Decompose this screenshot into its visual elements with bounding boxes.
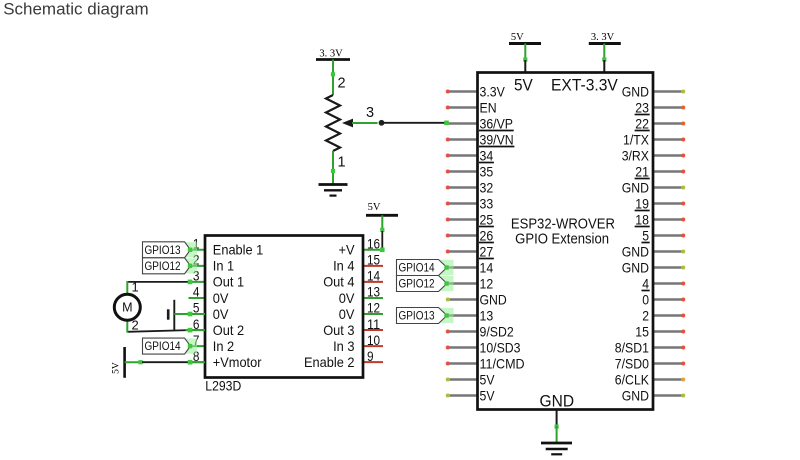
svg-text:5: 5 [642,227,649,243]
svg-text:In 1: In 1 [213,258,235,274]
svg-text:5V: 5V [112,362,122,374]
svg-text:25: 25 [480,211,494,227]
svg-text:18: 18 [635,211,649,227]
svg-text:10/SD3: 10/SD3 [480,339,521,355]
svg-text:14: 14 [480,259,494,275]
svg-text:M: M [122,301,132,315]
svg-text:9: 9 [367,349,374,364]
svg-text:4: 4 [193,285,200,300]
svg-text:GND: GND [622,179,649,195]
svg-text:GND: GND [622,259,649,275]
svg-text:27: 27 [480,243,494,259]
svg-text:8/SD1: 8/SD1 [615,339,649,355]
svg-text:33: 33 [480,195,494,211]
svg-text:In 3: In 3 [333,338,355,354]
svg-text:GPIO12: GPIO12 [399,277,435,291]
svg-text:7/SD0: 7/SD0 [615,355,649,371]
svg-text:Schematic diagram: Schematic diagram [3,0,149,19]
svg-text:GPIO13: GPIO13 [399,309,435,323]
svg-text:GPIO14: GPIO14 [145,339,181,353]
svg-text:36/VP: 36/VP [480,115,514,131]
svg-text:5V: 5V [514,76,533,94]
svg-text:5V: 5V [480,371,496,387]
svg-text:15: 15 [367,253,380,268]
svg-text:Enable 1: Enable 1 [213,242,264,258]
svg-text:EXT-3.3V: EXT-3.3V [551,76,618,94]
svg-text:GND: GND [480,291,507,307]
svg-text:11/CMD: 11/CMD [480,355,525,371]
svg-text:0V: 0V [339,290,355,306]
svg-text:GPIO12: GPIO12 [145,259,181,273]
svg-text:Enable 2: Enable 2 [304,354,355,370]
svg-text:4: 4 [642,275,649,291]
svg-text:GND: GND [540,392,575,411]
svg-text:0V: 0V [339,306,355,322]
svg-text:ESP32-WROVER: ESP32-WROVER [511,217,615,233]
svg-text:14: 14 [367,269,381,284]
svg-text:GND: GND [622,387,649,403]
svg-text:1: 1 [132,280,139,295]
svg-text:Out 1: Out 1 [213,274,244,290]
svg-text:15: 15 [635,323,649,339]
svg-text:Out 4: Out 4 [323,274,354,290]
svg-text:+Vmotor: +Vmotor [213,354,262,370]
svg-text:In 2: In 2 [213,338,235,354]
svg-text:13: 13 [367,285,380,300]
svg-text:13: 13 [480,307,494,323]
svg-text:34: 34 [480,147,494,163]
svg-text:EN: EN [480,99,497,115]
svg-text:22: 22 [635,115,649,131]
svg-text:Out 2: Out 2 [213,322,244,338]
svg-text:9/SD2: 9/SD2 [480,323,514,339]
svg-text:3/RX: 3/RX [622,147,650,163]
svg-text:16: 16 [367,237,380,252]
svg-text:0V: 0V [213,306,229,322]
svg-text:32: 32 [480,179,494,195]
svg-text:21: 21 [635,163,649,179]
svg-text:0V: 0V [213,290,229,306]
svg-text:1: 1 [338,155,346,171]
svg-text:35: 35 [480,163,494,179]
svg-text:5V: 5V [480,387,496,403]
svg-text:L293D: L293D [205,378,241,393]
svg-text:5V: 5V [511,32,524,43]
svg-text:10: 10 [367,333,380,348]
svg-text:GND: GND [622,83,649,99]
svg-text:23: 23 [635,99,649,115]
svg-text:12: 12 [480,275,494,291]
svg-text:GPIO13: GPIO13 [145,243,181,257]
svg-text:0: 0 [642,291,649,307]
svg-text:3: 3 [366,105,374,121]
svg-text:39/VN: 39/VN [480,131,514,147]
svg-text:2: 2 [338,76,346,92]
svg-text:GPIO Extension: GPIO Extension [515,231,609,247]
svg-text:1/TX: 1/TX [623,131,650,147]
svg-text:12: 12 [367,301,380,316]
svg-text:11: 11 [367,317,380,332]
svg-text:26: 26 [480,227,494,243]
svg-text:3. 3V: 3. 3V [591,32,615,43]
svg-text:+V: +V [339,242,356,258]
svg-text:19: 19 [635,195,649,211]
svg-text:3.3V: 3.3V [480,83,506,99]
svg-text:5V: 5V [368,202,381,213]
svg-text:GPIO14: GPIO14 [399,261,435,275]
svg-text:GND: GND [622,243,649,259]
svg-text:6/CLK: 6/CLK [615,371,650,387]
svg-text:In 4: In 4 [333,258,355,274]
svg-text:Out 3: Out 3 [323,322,354,338]
svg-text:3. 3V: 3. 3V [319,49,343,60]
svg-text:2: 2 [642,307,649,323]
